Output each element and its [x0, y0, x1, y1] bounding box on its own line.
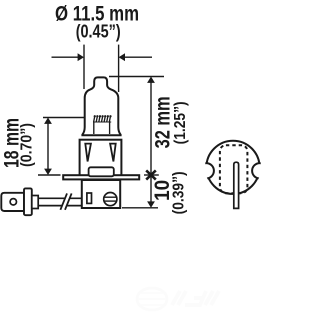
svg-text:(0.45”): (0.45”) [76, 22, 121, 42]
svg-text:(0.39”): (0.39”) [171, 171, 188, 214]
svg-text:32 mm: 32 mm [151, 96, 174, 148]
svg-text:(0.70”): (0.70”) [19, 123, 36, 167]
svg-text:(1.25”): (1.25”) [172, 101, 189, 144]
